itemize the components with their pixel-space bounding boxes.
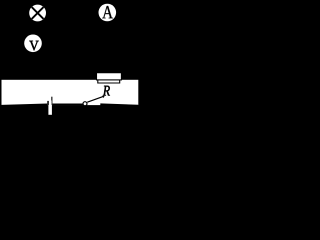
white band (diagram background strip) <box>2 80 139 105</box>
battery white gap stripe (extends below band) <box>49 101 52 105</box>
lever tip arrowhead <box>102 96 104 98</box>
wire left segment (edge to battery) <box>2 104 48 106</box>
battery positive plate (long thin) <box>51 97 52 106</box>
label R <box>103 86 110 96</box>
lamp L (circle with X) <box>29 5 46 22</box>
ammeter A <box>99 4 117 22</box>
switch pivot circle <box>83 102 87 106</box>
rheostat lower bracket <box>98 80 120 83</box>
wire battery-to-switch segment <box>52 104 83 106</box>
wire bottom-right segment <box>100 103 138 105</box>
rheostat body (box R) <box>97 73 122 83</box>
battery negative plate (short thick) <box>47 101 49 105</box>
voltmeter V <box>24 35 42 53</box>
switch lever (open) <box>87 96 104 102</box>
